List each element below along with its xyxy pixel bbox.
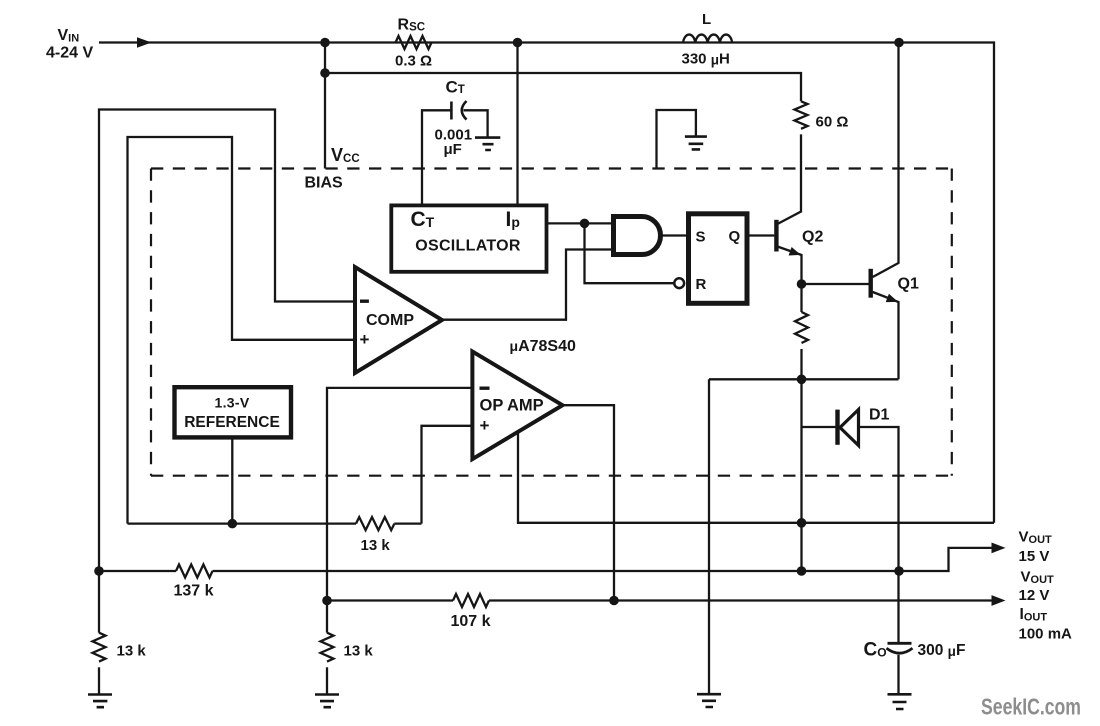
svg-text:Q2: Q2 [802,229,823,246]
svg-text:12 V: 12 V [1019,587,1050,604]
svg-text:15 V: 15 V [1019,548,1050,565]
svg-text:+: + [360,330,370,349]
svg-text:REFERENCE: REFERENCE [184,414,280,431]
svg-text:BIAS: BIAS [305,175,344,192]
svg-text:0.3 Ω: 0.3 Ω [395,53,432,70]
svg-text:OSCILLATOR: OSCILLATOR [415,238,521,255]
svg-text:13 k: 13 k [361,537,391,554]
svg-text:107 k: 107 k [451,613,491,630]
svg-text:SeekIC.com: SeekIC.com [981,694,1081,720]
svg-text:μA78S40: μA78S40 [510,338,577,355]
svg-text:137 k: 137 k [174,583,214,600]
svg-text:L: L [702,11,711,28]
svg-text:Q1: Q1 [898,276,919,293]
svg-text:OP AMP: OP AMP [480,397,544,415]
svg-text:4-24 V: 4-24 V [46,45,93,62]
svg-text:+: + [480,416,490,435]
svg-text:1.3-V: 1.3-V [215,395,250,411]
svg-text:Q: Q [729,228,741,245]
svg-text:330 μH: 330 μH [682,51,730,68]
svg-text:13 k: 13 k [117,643,147,660]
svg-text:D1: D1 [869,407,890,424]
svg-text:μF: μF [444,141,462,158]
svg-text:13 k: 13 k [344,643,374,660]
svg-text:60 Ω: 60 Ω [816,114,849,131]
svg-text:S: S [696,229,706,246]
svg-text:R: R [696,276,707,293]
svg-text:100 mA: 100 mA [1019,626,1073,643]
svg-text:COMP: COMP [366,312,414,329]
svg-text:300 μF: 300 μF [918,642,966,659]
